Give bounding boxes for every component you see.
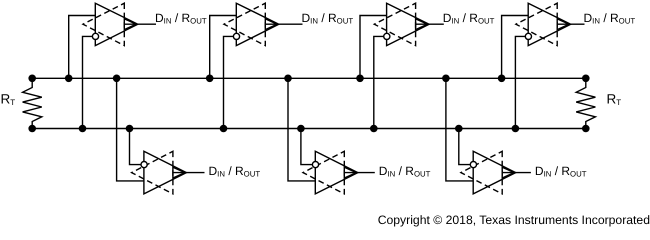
node: junction U6 D_IN on bus B <box>297 125 305 133</box>
transceiver U5 driver triangle <box>144 151 187 194</box>
node: junction RT2 (right) bottom on bus B <box>582 125 590 133</box>
node: junction RT2 (right) top on bus A <box>582 75 590 83</box>
transceiver U1 enable bubble <box>92 33 98 39</box>
wire: transceiver U2 R_OUT lead to bus A <box>210 16 237 79</box>
wire: transceiver U1 R_OUT lead to bus A <box>69 16 96 79</box>
transceiver U3 driver triangle <box>387 3 430 45</box>
node: junction U2 R_OUT on bus A <box>206 75 214 83</box>
wire: transceiver U3 bus pin stub <box>416 23 444 25</box>
transceiver U2 receiver triangle (dashed) <box>224 3 265 45</box>
wire: transceiver U6 bus pin stub <box>344 172 375 174</box>
svg-text:DIN / ROUT: DIN / ROUT <box>535 164 587 179</box>
transceiver U4 driver triangle <box>528 3 571 45</box>
wire: transceiver U4 R_OUT lead to bus A <box>502 16 529 79</box>
transceiver U2 inner driver arrowhead <box>265 19 277 30</box>
svg-text:RT: RT <box>1 92 16 107</box>
transceiver U6 driver triangle <box>315 151 358 194</box>
wire: transceiver U1 bus pin stub <box>124 23 156 25</box>
wire: bus line A (top differential conductor) <box>32 77 586 79</box>
wire: transceiver U5 R_OUT lead to bus A <box>117 78 144 181</box>
wire: transceiver U6 D_IN enable lead to bus B <box>301 129 312 165</box>
node: junction U3 R_OUT on bus A <box>356 75 364 83</box>
transceiver U7 inner driver arrowhead <box>502 167 514 178</box>
wire: transceiver U7 D_IN enable lead to bus B <box>459 129 470 165</box>
transceiver U3 receiver triangle (dashed) <box>374 3 415 45</box>
node: junction U4 D_IN on bus B <box>512 125 520 133</box>
wire: bus line B (bottom differential conductor) <box>32 128 586 130</box>
wire: transceiver U4 bus pin stub <box>557 23 584 25</box>
svg-text:DIN / ROUT: DIN / ROUT <box>302 11 354 26</box>
svg-text:DIN / ROUT: DIN / ROUT <box>379 164 431 179</box>
svg-text:DIN / ROUT: DIN / ROUT <box>443 11 495 26</box>
wire: transceiver U1 D_IN enable lead to bus B <box>83 36 93 128</box>
transceiver U1 receiver triangle (dashed) <box>83 3 124 45</box>
wire: transceiver U6 R_OUT lead to bus A <box>288 78 315 181</box>
transceiver U4 enable bubble <box>525 33 531 39</box>
node: junction U1 R_OUT on bus A <box>65 75 73 83</box>
svg-text:Copyright © 2018, Texas Instru: Copyright © 2018, Texas Instruments Inco… <box>378 213 650 227</box>
node: junction U2 D_IN on bus B <box>220 125 228 133</box>
transceiver U7 enable bubble <box>470 162 476 168</box>
svg-text:DIN / ROUT: DIN / ROUT <box>209 164 261 179</box>
node: junction U1 D_IN on bus B <box>79 125 87 133</box>
wire: transceiver U5 bus pin stub <box>173 172 205 174</box>
node: junction U5 R_OUT on bus A <box>113 75 121 83</box>
node: junction U3 D_IN on bus B <box>370 125 378 133</box>
wire: transceiver U4 D_IN enable lead to bus B <box>515 36 525 128</box>
node: junction U5 D_IN on bus B <box>126 125 134 133</box>
svg-text:DIN / ROUT: DIN / ROUT <box>155 11 207 26</box>
wire: transceiver U3 D_IN enable lead to bus B <box>374 36 384 128</box>
transceiver U3 enable bubble <box>384 33 390 39</box>
wire: transceiver U2 D_IN enable lead to bus B <box>224 36 234 128</box>
transceiver U7 receiver triangle (dashed) <box>461 151 502 194</box>
transceiver U7 driver triangle <box>473 151 516 194</box>
wire: transceiver U2 bus pin stub <box>265 23 302 25</box>
transceiver U1 inner driver arrowhead <box>124 19 136 30</box>
transceiver U4 inner driver arrowhead <box>557 19 569 30</box>
wire: transceiver U7 bus pin stub <box>502 172 531 174</box>
transceiver U1 driver triangle <box>95 3 138 45</box>
node: junction U4 R_OUT on bus A <box>498 75 506 83</box>
wire: transceiver U3 R_OUT lead to bus A <box>360 16 387 79</box>
node: junction U6 R_OUT on bus A <box>284 75 292 83</box>
wire: transceiver U7 R_OUT lead to bus A <box>446 78 473 181</box>
node: junction RT1 (left) top on bus A <box>28 75 36 83</box>
transceiver U6 inner driver arrowhead <box>344 167 356 178</box>
node: junction U7 D_IN on bus B <box>455 125 463 133</box>
transceiver U2 driver triangle <box>236 3 278 45</box>
transceiver U6 receiver triangle (dashed) <box>303 151 344 194</box>
transceiver U4 receiver triangle (dashed) <box>516 3 557 45</box>
transceiver U5 inner driver arrowhead <box>173 167 185 178</box>
svg-text:RT: RT <box>607 92 622 107</box>
transceiver U5 receiver triangle (dashed) <box>132 151 173 194</box>
transceiver U3 inner driver arrowhead <box>416 19 428 30</box>
transceiver U5 enable bubble <box>141 162 147 168</box>
resistor RT1 (left) termination <box>23 78 42 128</box>
wire: transceiver U5 D_IN enable lead to bus B <box>130 129 141 165</box>
node: junction RT1 (left) bottom on bus B <box>28 125 36 133</box>
transceiver U2 enable bubble <box>233 33 239 39</box>
node: junction U7 R_OUT on bus A <box>442 75 450 83</box>
svg-text:DIN / ROUT: DIN / ROUT <box>584 11 636 26</box>
transceiver U6 enable bubble <box>312 162 318 168</box>
resistor RT2 (right) termination <box>576 78 595 128</box>
